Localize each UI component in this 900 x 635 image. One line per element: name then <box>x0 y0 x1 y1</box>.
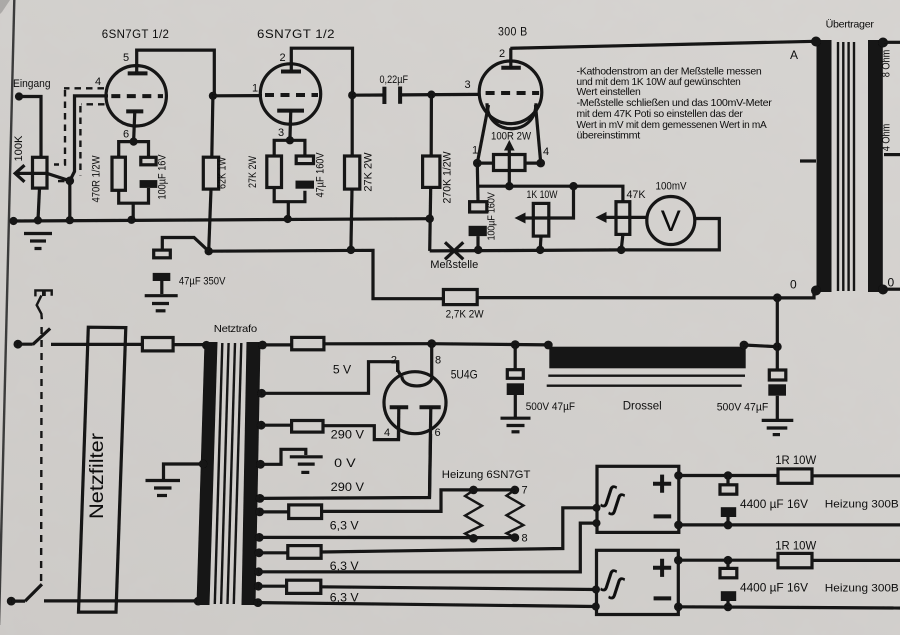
wire 1K bottom <box>539 236 543 250</box>
wire V1 anode to V2 grid <box>213 94 262 97</box>
svg-text:8 Ohm: 8 Ohm <box>881 50 893 78</box>
5U4G pin 8 lead <box>430 344 433 376</box>
capacitor 500V 47uF left plus plate <box>507 370 523 379</box>
svg-text:Netzfilter: Netzfilter <box>87 432 108 519</box>
instruction text block <box>577 66 773 142</box>
wire choke to riser <box>744 345 777 347</box>
wire 300B pin1 down <box>476 163 480 202</box>
5U4G filament arc <box>402 376 432 386</box>
capacitor 100uF 160V meter minus plate <box>469 226 487 236</box>
svg-text:100µF 16V: 100µF 16V <box>157 154 169 200</box>
potentiometer 100R wiper <box>508 147 511 186</box>
junction dot heater bottom right <box>511 533 520 542</box>
primary tap tick <box>800 159 816 162</box>
capacitor 47uF 350V plus plate <box>154 250 171 258</box>
junction dots messstelle line <box>474 246 482 254</box>
triode V1 cathode lead <box>134 111 135 141</box>
junction dot heater top left <box>469 486 478 495</box>
fuse 6,3V 1 body <box>289 505 322 519</box>
shield dashed lines input wiring <box>53 88 105 181</box>
triode V2 anode lead and top wire <box>291 48 352 95</box>
node Messstelle X mark <box>445 242 463 259</box>
triode V2 grid dashes <box>265 93 318 97</box>
wire wiper to grid junction <box>47 173 70 180</box>
junction dot primary bottom <box>194 597 203 606</box>
junction dot cap 4400 1 bottom <box>724 521 733 530</box>
300B pin 1 dot <box>473 159 482 168</box>
svg-text:2: 2 <box>391 355 397 367</box>
svg-text:Heizung 300B: Heizung 300B <box>825 583 899 595</box>
node Eingang terminal <box>15 92 23 100</box>
svg-text:47µF 350V: 47µF 350V <box>179 276 226 288</box>
wire coupling cap to 300B grid <box>400 93 479 97</box>
triode V1 cathode bar <box>126 109 143 113</box>
triode V1 anode bar <box>128 71 148 75</box>
choke Drossel winding bar <box>549 347 745 369</box>
switch S1a <box>18 329 50 345</box>
svg-text:1R 10W: 1R 10W <box>775 453 817 467</box>
wire 290V tap 1 <box>261 424 291 427</box>
wire secondary 0 line <box>884 288 900 291</box>
junction dot 270K at bus <box>426 215 434 223</box>
wire measure rail <box>478 186 623 202</box>
capacitor 100uF 160V meter plus plate <box>470 202 487 212</box>
wire cap 4400 2 leads <box>726 560 729 607</box>
capacitor 47uF 160V minus plate <box>296 181 315 189</box>
5U4G anode left lead <box>397 407 400 439</box>
capacitor 4400uF 2 minus plate <box>721 591 736 601</box>
transformer terminal dots <box>811 37 821 47</box>
svg-text:8: 8 <box>435 355 441 367</box>
svg-text:V: V <box>661 205 681 238</box>
power transformer secondary bar <box>242 342 261 605</box>
capacitor 47uF 160V plus plate <box>296 156 313 164</box>
svg-text:47K: 47K <box>627 189 647 201</box>
junction dot primary top <box>202 341 211 350</box>
wire cap to messstelle line <box>476 236 479 250</box>
svg-text:0: 0 <box>790 278 797 292</box>
wire B+ feed line <box>209 250 444 298</box>
ground symbol 47uF 350V <box>145 296 178 311</box>
power transformer primary bar <box>197 342 218 605</box>
300B filament lead pin 1 <box>477 105 488 163</box>
junction dot cap 4400 2 top <box>724 556 733 565</box>
svg-text:4: 4 <box>95 76 101 88</box>
resistor 1R 10W 1 body <box>778 469 812 483</box>
junction dot B+ node 62K <box>205 247 213 255</box>
wire 2,7K to transformer 0 <box>477 293 814 298</box>
wire bridge 2 plus rail <box>678 559 778 562</box>
potentiometer 47K body <box>616 202 630 235</box>
power transformer core lines <box>215 343 242 604</box>
svg-text:500V 47µF: 500V 47µF <box>526 401 576 413</box>
junction dot 5U4G pin8 <box>427 339 436 348</box>
junction dot wiper <box>66 177 75 186</box>
svg-text:470R 1/2W: 470R 1/2W <box>91 155 103 203</box>
svg-text:5 V: 5 V <box>333 363 351 377</box>
wire riser to transformer 0 <box>776 298 779 347</box>
bridge 1 output dots <box>674 471 683 480</box>
junction dot cathode V1 <box>130 138 138 146</box>
svg-text:2: 2 <box>280 52 286 64</box>
svg-text:6SN7GT 1/2: 6SN7GT 1/2 <box>102 27 170 41</box>
capacitor 100uF 16V minus plate <box>140 180 158 188</box>
bridge 1 plus sign <box>653 475 671 493</box>
wire cap 4400 1 leads <box>726 476 729 526</box>
wire 290V tap 2 to 5U4G pin 6 <box>260 434 431 498</box>
wire voltmeter return loop <box>621 219 719 250</box>
triode V1 anode lead and top wire <box>137 50 215 96</box>
svg-text:Heizung 6SN7GT: Heizung 6SN7GT <box>442 469 531 481</box>
capacitor 4400uF 1 plus plate <box>720 485 737 494</box>
svg-text:290 V: 290 V <box>331 480 364 494</box>
wire B+ line to choke <box>324 344 549 345</box>
wire bridge 2 minus rail <box>678 607 900 608</box>
junction dot heater top right <box>511 486 520 495</box>
triode V1 grid dashes <box>111 94 163 98</box>
wire 300B anode to output transformer <box>510 41 815 48</box>
300B filament arc <box>487 103 536 128</box>
junction dot V2 anode <box>348 91 356 99</box>
svg-text:Netztrafo: Netztrafo <box>214 323 257 335</box>
svg-text:100mV: 100mV <box>656 181 688 193</box>
ground symbol 0V <box>290 457 323 473</box>
wire 6,3V tap 1 <box>260 510 289 513</box>
junction dot cap 4400 1 top <box>724 471 733 480</box>
wire pot bottom to ground bus <box>38 188 40 220</box>
wire cathode network V1 <box>119 142 149 220</box>
wire 1R 2 to output <box>812 559 900 562</box>
300B anode bar <box>501 66 521 70</box>
potentiometer 1K 10W body <box>533 203 549 236</box>
resistor heater balance left zigzag <box>465 490 482 538</box>
wire 6,3V tap 3 <box>258 585 286 588</box>
wire pot 100R terminals <box>477 162 540 165</box>
wire 4 Ohm tap <box>884 153 900 156</box>
svg-text:1: 1 <box>252 83 258 95</box>
svg-text:6,3 V: 6,3 V <box>330 519 359 533</box>
transformer core ground wire <box>164 464 205 479</box>
wire 6,3V 1 to heater network <box>322 490 515 512</box>
svg-text:500V 47µF: 500V 47µF <box>717 402 769 414</box>
300B anode lead <box>509 48 512 68</box>
mains terminal top dot <box>14 340 23 349</box>
svg-text:100K: 100K <box>13 135 25 162</box>
svg-text:6: 6 <box>435 427 441 439</box>
svg-text:6SN7GT 1/2: 6SN7GT 1/2 <box>257 27 335 41</box>
fuse 6,3V 3 body <box>287 580 321 593</box>
output transformer primary bar <box>817 40 832 292</box>
junction dot measure rail <box>569 182 577 190</box>
300B filament lead pin 4 <box>536 105 541 163</box>
wire messstelle line <box>430 250 622 251</box>
capacitor 4400uF 1 minus plate <box>721 507 736 517</box>
svg-text:4 Ohm: 4 Ohm <box>881 124 893 152</box>
ground symbol cap right <box>762 420 794 434</box>
tetrode 300B envelope <box>479 61 542 124</box>
svg-text:4: 4 <box>543 146 549 158</box>
capacitor 4400uF 2 plus plate <box>720 568 737 577</box>
ground symbol input <box>24 234 52 249</box>
svg-text:Eingang: Eingang <box>13 78 51 90</box>
junction dot core ground <box>199 460 207 468</box>
wire cap right leads <box>776 347 779 420</box>
resistor 62K 1W body <box>203 157 218 189</box>
wire mains top to fuse <box>51 343 142 346</box>
wire return line to bridge 2 <box>258 603 596 607</box>
potentiometer 47K wiper arrow <box>600 216 647 219</box>
resistor heater balance right zigzag <box>507 490 524 538</box>
ground symbol transformer core <box>146 481 181 496</box>
wire cathode network V2 <box>274 140 305 219</box>
page left edge <box>0 0 14 625</box>
svg-text:4400 µF 16V: 4400 µF 16V <box>740 497 808 511</box>
svg-text:2: 2 <box>499 48 505 60</box>
triode V2 6SN7GT 1/2 envelope <box>260 64 320 124</box>
fuse B+ body <box>292 337 324 349</box>
rectifier 5U4G envelope <box>384 372 446 434</box>
wire 27K anode to B+ line <box>351 95 352 250</box>
wire 47uF 350V to ground <box>160 281 163 294</box>
wire 6,3V tap 2 <box>259 551 288 554</box>
output transformer core lines <box>838 42 854 291</box>
5U4G anode bar left <box>390 405 409 409</box>
wire 6,3V 2 to bridge 1 <box>321 508 596 552</box>
wire B+ node to filter cap <box>162 238 208 252</box>
ground bus <box>14 219 430 221</box>
triode V1 6SN7GT 1/2 envelope <box>106 66 166 126</box>
wire 62K to B+ node <box>209 96 213 251</box>
svg-text:5: 5 <box>123 52 129 64</box>
svg-text:übereinstimmt: übereinstimmt <box>577 130 641 142</box>
svg-text:27K 2W: 27K 2W <box>247 156 259 188</box>
bridge 2 output dots <box>674 556 683 565</box>
svg-text:100R 2W: 100R 2W <box>491 131 532 143</box>
capacitor 500V 47uF left minus plate <box>507 383 524 395</box>
svg-text:2,7K 2W: 2,7K 2W <box>446 309 485 321</box>
svg-text:0,22µF: 0,22µF <box>380 74 409 86</box>
capacitor 100uF 16V plus plate <box>141 157 156 165</box>
svg-text:3: 3 <box>465 79 471 91</box>
svg-text:3: 3 <box>278 127 284 139</box>
output transformer secondary bar <box>868 40 883 292</box>
svg-text:5U4G: 5U4G <box>451 368 478 382</box>
fuse 290V body <box>292 421 323 433</box>
resistor 2,7K 2W body <box>443 290 477 305</box>
bridge 1 minus sign <box>654 514 672 518</box>
300B pin 4 dot <box>536 159 545 168</box>
resistor 1R 10W 2 body <box>778 553 812 567</box>
svg-text:-Meßstelle schließen und das 1: -Meßstelle schließen und das 100mV-Meter <box>577 97 773 109</box>
junction dot 27K bottom <box>347 246 355 254</box>
potentiometer 1K 10W wiper arrow <box>520 186 574 218</box>
svg-text:4400 µF 16V: 4400 µF 16V <box>740 581 808 595</box>
triode V2 cathode lead <box>288 111 292 141</box>
wire 8 Ohm tap <box>884 41 900 44</box>
bridge rectifier 2 box <box>597 550 679 614</box>
capacitor 500V 47uF right plus plate <box>769 370 786 380</box>
svg-text:0: 0 <box>888 276 895 290</box>
resistor 27K 2W cathode body <box>267 156 282 188</box>
secondary tap dots <box>258 341 267 350</box>
svg-text:47µF 160V: 47µF 160V <box>315 152 327 198</box>
junction dot heater bottom left <box>469 534 478 543</box>
bridge rectifier 1 box <box>597 466 679 532</box>
svg-text:A: A <box>790 48 798 62</box>
mains terminal bottom dot <box>7 597 16 606</box>
wire return line to bridge 1 <box>259 523 596 572</box>
wire 290V to 5U4G pin 4 <box>323 426 399 440</box>
switch linkage dashed <box>40 327 43 584</box>
svg-text:1K 10W: 1K 10W <box>527 189 558 201</box>
wire fuse to transformer primary <box>173 343 206 346</box>
bridge 2 plus sign <box>653 559 671 577</box>
svg-text:0 V: 0 V <box>334 456 355 470</box>
svg-text:Drossel: Drossel <box>623 399 662 413</box>
mains plug symbol <box>35 290 51 296</box>
300B grid dashes <box>486 91 539 95</box>
junction dots on ground bus <box>9 217 17 225</box>
junction dot cathode V2 <box>286 136 294 144</box>
junction dot choke left <box>544 341 553 350</box>
wire 0V tap <box>261 449 306 464</box>
junction dot wiper 100R <box>505 182 513 190</box>
capacitor 47uF 350V minus plate <box>153 273 171 281</box>
wire 47K bottom <box>621 234 623 250</box>
junction dot grid 300B <box>427 91 435 99</box>
voltmeter 100mV body <box>647 197 695 245</box>
potentiometer 100K wiper arrow <box>15 172 47 175</box>
svg-text:62K 1W: 62K 1W <box>217 157 229 189</box>
triode V2 anode bar <box>281 70 301 74</box>
wire bridge 1 plus rail <box>679 474 779 477</box>
svg-text:mit dem 47K Poti so einstellen: mit dem 47K Poti so einstellen das der <box>577 108 744 120</box>
switch S1b <box>11 584 42 601</box>
wire bridge 1 minus rail <box>679 523 900 526</box>
fuse 6,3V 2 body <box>288 546 321 559</box>
svg-text:Meßstelle: Meßstelle <box>430 259 478 271</box>
svg-text:270K 1/2W: 270K 1/2W <box>442 151 454 204</box>
svg-text:Heizung 300B: Heizung 300B <box>825 499 899 511</box>
svg-text:4: 4 <box>384 427 390 439</box>
wire 1R 1 to output <box>812 474 900 477</box>
capacitor 0,22uF plates <box>382 87 386 104</box>
bridge 1 input dots <box>593 504 601 512</box>
wire 270K leads <box>430 95 432 251</box>
junction dot cap 4400 2 bottom <box>724 603 733 612</box>
svg-text:7: 7 <box>522 485 528 497</box>
bridge 2 input dots <box>592 586 600 594</box>
junction dot B+ transformer riser <box>773 293 782 302</box>
svg-text:27K 2W: 27K 2W <box>363 152 375 192</box>
line filter Netzfilter box <box>79 327 126 612</box>
potentiometer 100R 2W body <box>494 155 526 171</box>
resistor 270K 1/2W body <box>423 156 440 187</box>
wire mains bottom to transformer <box>44 599 198 602</box>
junction dot riser at B+ <box>773 342 782 351</box>
wire 5V tap <box>262 362 398 394</box>
junction dot V1 anode <box>209 92 217 100</box>
bridge 2 minus sign <box>654 596 672 600</box>
svg-text:1: 1 <box>472 145 478 157</box>
wire 6,3V 3 to bridge 2 <box>321 587 596 590</box>
wire wiper junction to ground bus <box>68 181 71 220</box>
svg-text:6: 6 <box>123 129 129 141</box>
5U4G anode right lead <box>430 407 431 497</box>
svg-text:100µF 160V: 100µF 160V <box>486 192 498 240</box>
wire V2 anode to coupling cap <box>352 93 384 96</box>
svg-text:1R 10W: 1R 10W <box>775 539 817 553</box>
wire input to pot <box>19 97 41 158</box>
triode V2 cathode bar <box>277 109 304 113</box>
svg-text:300 B: 300 B <box>498 25 528 39</box>
potentiometer 100K body <box>33 157 48 188</box>
fuse mains body <box>142 338 173 351</box>
capacitor 500V 47uF right minus plate <box>768 384 786 395</box>
corner smudge <box>0 0 10 14</box>
ground symbol cap left <box>501 418 531 432</box>
svg-text:Übertrager: Übertrager <box>826 19 875 31</box>
resistor 470R 1/2W body <box>112 157 125 190</box>
choke core lines <box>547 376 745 386</box>
mains zigzag lead <box>37 296 42 320</box>
5U4G pin 2 lead <box>398 362 402 377</box>
resistor 27K 2W anode body <box>345 156 360 189</box>
wire heater bottom line <box>259 536 515 539</box>
wire cap left leads <box>514 345 517 418</box>
junction dot cap1 <box>511 340 520 349</box>
svg-text:8: 8 <box>522 533 528 545</box>
junction dot choke right <box>740 341 749 350</box>
5U4G anode bar right <box>420 405 441 409</box>
svg-text:290 V: 290 V <box>331 428 364 442</box>
wire grid of V1 <box>70 96 108 181</box>
wire HV rectified tap to fuse <box>263 343 292 346</box>
